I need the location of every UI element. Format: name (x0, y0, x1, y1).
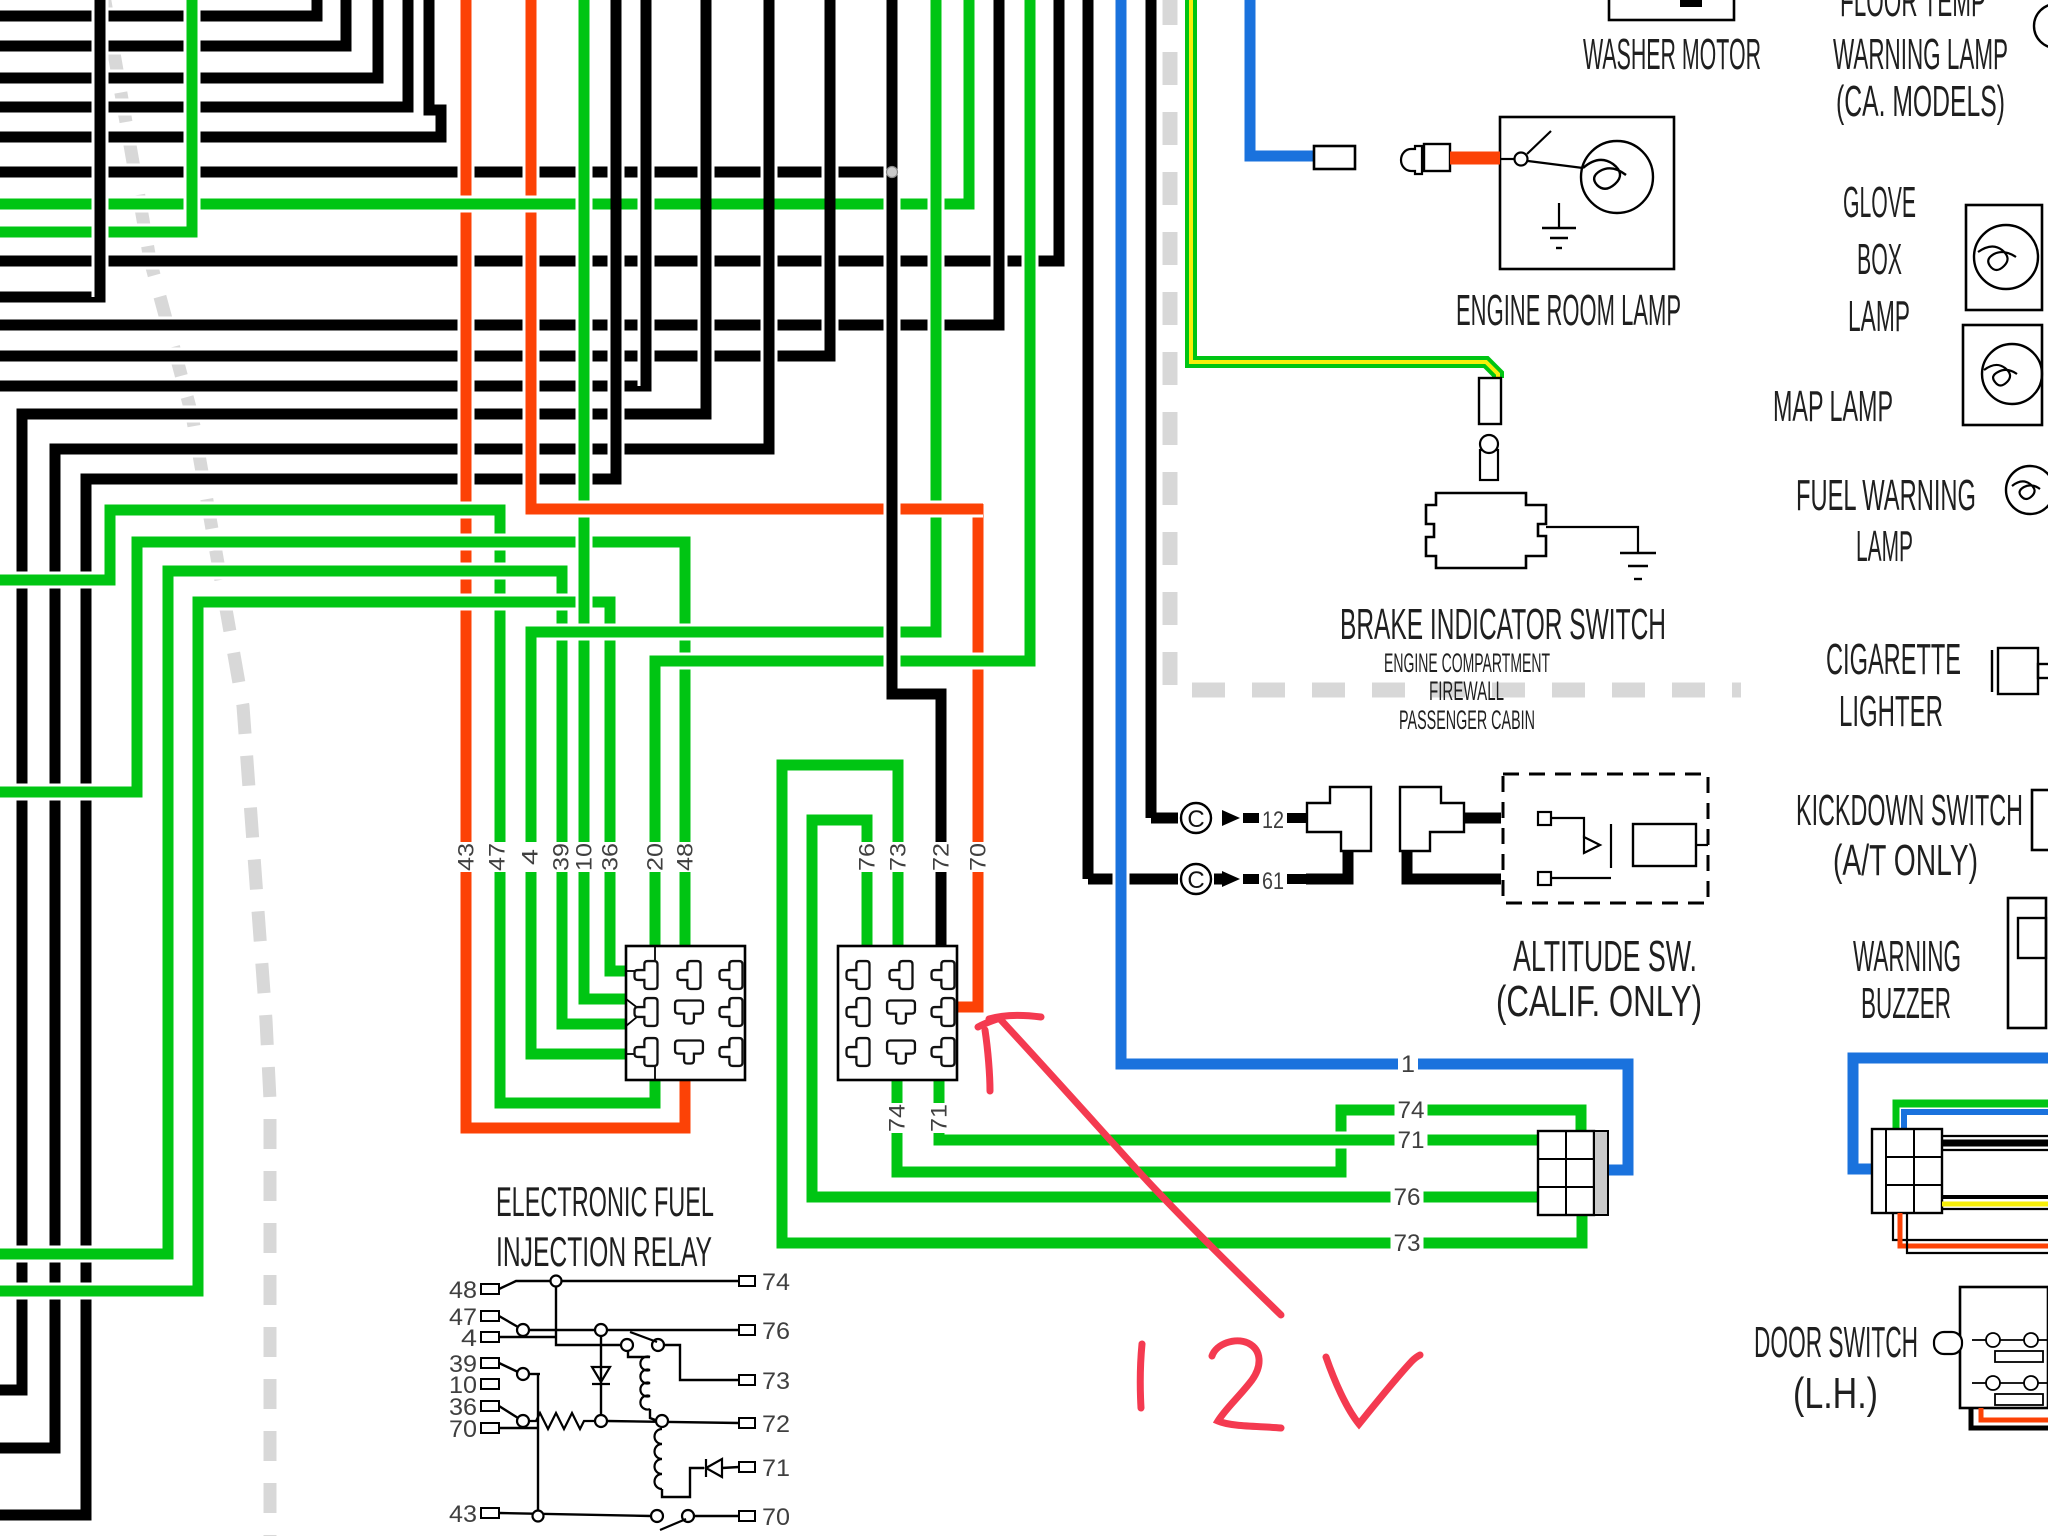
svg-text:(CALIF. ONLY): (CALIF. ONLY) (1496, 977, 1702, 1026)
svg-text:INJECTION RELAY: INJECTION RELAY (496, 1228, 712, 1275)
red annotation text 12 V (1140, 1344, 1142, 1408)
svg-text:(L.H.): (L.H.) (1793, 1369, 1878, 1418)
svg-text:70: 70 (449, 1416, 477, 1443)
svg-text:73: 73 (1394, 1230, 1421, 1257)
diode D2 (705, 1459, 707, 1477)
wire black row y172 to junction dot (0, 164, 890, 181)
map lamp box (1963, 325, 2042, 425)
svg-text:36: 36 (598, 843, 623, 871)
connector block 2 (cabin harness) (838, 946, 957, 1080)
door switch wires (1971, 1408, 2048, 1428)
wire black vertical x646 (638, 0, 655, 386)
washer motor connector (1314, 146, 1355, 169)
wire orange 70 lower vertical (957, 504, 978, 1007)
wire black row 61 left segment (1088, 874, 1178, 885)
ground (1558, 203, 1560, 228)
svg-text:74: 74 (1398, 1097, 1425, 1124)
svg-text:72: 72 (762, 1411, 790, 1438)
svg-text:(CA. MODELS): (CA. MODELS) (1836, 77, 2005, 126)
door switch contacts row 2 (1972, 1382, 1986, 1384)
wire black row y261 (0, 0, 1059, 261)
svg-text:CIGARETTE: CIGARETTE (1826, 635, 1961, 684)
wire green 39 path (0, 571, 626, 1254)
arrow row 12 (1222, 810, 1240, 826)
wire black right T-connector to altitude box (row 12) (1464, 813, 1501, 824)
wire black right T-connector to altitude box (row 61) (1407, 851, 1501, 879)
svg-text:20: 20 (643, 843, 668, 871)
svg-text:74: 74 (885, 1104, 910, 1132)
resistor R1 (499, 1406, 518, 1418)
wire black vertical x830 (825, 0, 836, 356)
arrow row 61 (1222, 871, 1240, 887)
wire black vertical x1088 to C row (1080, 0, 1097, 879)
fuel warning bulb (2006, 466, 2048, 514)
svg-text:76: 76 (762, 1318, 790, 1345)
wire black row y356 (0, 0, 830, 356)
wire green 71 path (939, 1080, 1538, 1140)
wire black row y414 / left vertical x22 (0, 0, 706, 1390)
wire green row y204 (0, 0, 969, 204)
junction dot on row y172 (887, 167, 898, 178)
wire black row y325 (0, 0, 999, 325)
svg-text:1: 1 (1401, 1051, 1415, 1078)
wire orange 43 path (466, 0, 685, 1128)
svg-text:BOX: BOX (1857, 235, 1902, 284)
T-connector right (1400, 787, 1464, 851)
svg-text:FLOOR TEMP: FLOOR TEMP (1840, 0, 1986, 26)
svg-text:70: 70 (762, 1504, 790, 1531)
relay line 70 (499, 1427, 538, 1429)
svg-text:10: 10 (572, 843, 597, 871)
wire black row y386 (0, 0, 646, 386)
wire black row 12 left segment (1151, 813, 1178, 824)
relay internal circuit (499, 1281, 739, 1289)
wire green 20 path / row y661 (655, 0, 1030, 946)
ground from switch (1546, 527, 1638, 553)
orange wire with outline from right connector bottom (1893, 1213, 2048, 1240)
wire blue right connector (1853, 1058, 2048, 1169)
floor temp bulb (edge) (2034, 4, 2048, 48)
brake indicator switch connector (1479, 378, 1501, 424)
wire green right connector pair (1898, 1105, 2048, 1129)
svg-text:70: 70 (966, 843, 991, 871)
wire black row y297 (0, 0, 100, 297)
svg-text:C: C (1187, 806, 1204, 833)
wire green 4 path / row y632 (531, 0, 936, 1054)
svg-text:C: C (1187, 867, 1204, 894)
wire black row y449 / left vertical x55 (0, 0, 769, 1448)
coil L2 (655, 1429, 663, 1444)
wire black vertical x100 (92, 0, 109, 297)
svg-text:4: 4 (461, 1325, 477, 1352)
wire green 48 path (0, 542, 685, 946)
svg-text:FUEL WARNING: FUEL WARNING (1796, 471, 1976, 520)
relay pin 72 (739, 1418, 755, 1428)
wire green row y232 (0, 0, 192, 232)
svg-text:43: 43 (449, 1501, 477, 1528)
relay pin 76 (739, 1325, 755, 1335)
wire orange 70 upper vertical (523, 0, 540, 504)
black/white wire pair from right connector (1942, 1135, 2048, 1137)
relay pin 73 (739, 1375, 755, 1385)
wire black row y78 (0, 0, 378, 78)
gray dashed harness boundary (left diagonal) (103, 0, 270, 1536)
bulb + socket + orange feed (1401, 146, 1422, 174)
svg-text:ELECTRONIC FUEL: ELECTRONIC FUEL (496, 1178, 714, 1225)
connector block 1 (EFI relay harness) (626, 946, 745, 1080)
svg-text:39: 39 (549, 843, 574, 871)
wire green 47 path (0, 510, 655, 1103)
svg-text:76: 76 (855, 843, 880, 871)
wire yellow-green map/brake feed (1191, 0, 1498, 378)
svg-text:4: 4 (518, 849, 543, 865)
gray dashed firewall boundary (vertical + horizontal) (1170, 0, 1741, 690)
cigarette lighter symbol (1991, 650, 1993, 692)
diode D1 (592, 1367, 610, 1382)
svg-text:ENGINE COMPARTMENT: ENGINE COMPARTMENT (1384, 648, 1550, 678)
coil L1 (628, 1351, 650, 1357)
relay pin 70 (739, 1511, 755, 1521)
svg-text:KICKDOWN SWITCH: KICKDOWN SWITCH (1796, 786, 2023, 835)
wire green 74 path (897, 1080, 1581, 1172)
svg-text:76: 76 (1394, 1184, 1421, 1211)
wire black vertical x616 (611, 0, 622, 479)
wire green 76 path (812, 820, 1538, 1197)
svg-text:DOOR SWITCH: DOOR SWITCH (1754, 1318, 1918, 1367)
svg-text:71: 71 (1398, 1127, 1425, 1154)
svg-text:FIREWALL: FIREWALL (1429, 676, 1504, 706)
door switch body (1960, 1287, 2048, 1408)
svg-text:74: 74 (762, 1269, 790, 1296)
svg-text:48: 48 (449, 1277, 477, 1304)
svg-text:BUZZER: BUZZER (1861, 979, 1951, 1028)
svg-text:WARNING: WARNING (1853, 932, 1961, 981)
svg-text:71: 71 (762, 1455, 790, 1482)
svg-text:47: 47 (485, 843, 510, 871)
connector (right, door harness) (1872, 1129, 1942, 1213)
T-connector left (1307, 787, 1371, 851)
wire black vertical x1059 (1054, 0, 1065, 261)
svg-text:43: 43 (454, 843, 479, 871)
wire blue thin right connector pair (1904, 1112, 2048, 1129)
door switch contacts row 1 (1972, 1339, 1986, 1341)
svg-text:WASHER MOTOR: WASHER MOTOR (1583, 30, 1761, 79)
svg-text:LAMP: LAMP (1848, 292, 1910, 341)
svg-text:LIGHTER: LIGHTER (1839, 687, 1943, 736)
svg-text:48: 48 (673, 843, 698, 871)
svg-text:61: 61 (1262, 868, 1284, 895)
svg-text:71: 71 (927, 1104, 952, 1132)
wire blue washer motor (1250, 0, 1314, 156)
wire black row y479 / left vertical x86 (0, 0, 616, 1515)
brake indicator switch sensor (1480, 450, 1498, 480)
wire black vertical x999 (994, 0, 1005, 325)
switch S1 (621, 1339, 633, 1351)
svg-text:BRAKE INDICATOR SWITCH: BRAKE INDICATOR SWITCH (1340, 600, 1666, 649)
warning buzzer box (2008, 898, 2046, 1028)
connector C symbol row 12 (1181, 803, 1211, 833)
svg-text:LAMP: LAMP (1856, 522, 1913, 571)
relay pin 71 (739, 1462, 755, 1472)
wire black vertical x706 (701, 0, 712, 414)
kickdown switch box (edge) (2032, 790, 2048, 850)
svg-text:PASSENGER CABIN: PASSENGER CABIN (1399, 705, 1535, 735)
svg-text:GLOVE: GLOVE (1843, 178, 1916, 227)
svg-text:ALTITUDE SW.: ALTITUDE SW. (1513, 932, 1697, 981)
connector C (left, door harness) (1538, 1131, 1594, 1215)
svg-text:12: 12 (1262, 807, 1284, 834)
switch (1500, 158, 1515, 160)
wire black row y107 (0, 0, 408, 107)
svg-text:(A/T ONLY): (A/T ONLY) (1833, 836, 1978, 885)
engine room lamp box (1500, 117, 1674, 269)
wire green 36 path (0, 602, 626, 1291)
Y junction symbol (626, 999, 643, 1026)
relay pin 74 (739, 1276, 755, 1286)
bulb (1581, 141, 1653, 213)
wire green 10 path (584, 0, 626, 999)
altitude switch dashed box (1503, 774, 1708, 903)
wire blue 1 path (1121, 0, 1628, 1170)
wire black vertical x769 (764, 0, 775, 449)
wire black 72 path (892, 0, 941, 946)
connector C symbol row 61 (1181, 864, 1211, 894)
svg-text:73: 73 (886, 843, 911, 871)
wire orange 70 horizontal (531, 500, 983, 509)
wire black row 61 to T-connector (1306, 851, 1348, 879)
svg-text:72: 72 (929, 843, 954, 871)
washer motor box (1609, 0, 1734, 20)
glove box lamp box (1966, 205, 2042, 310)
svg-text:WARNING LAMP: WARNING LAMP (1833, 30, 2008, 79)
wire black row y137 with jog (0, 0, 441, 137)
wire black row y46 (0, 0, 346, 46)
yellow/black wire from right connector (1942, 1195, 2048, 1199)
altitude switch internals (1538, 812, 1551, 825)
svg-text:73: 73 (762, 1368, 790, 1395)
red annotation arrow (1000, 1019, 1281, 1315)
svg-text:ENGINE ROOM LAMP: ENGINE ROOM LAMP (1456, 286, 1681, 335)
wire black vertical x1151 to C row (1143, 0, 1160, 818)
brake indicator switch body (1426, 493, 1546, 568)
svg-text:MAP LAMP: MAP LAMP (1773, 382, 1893, 431)
wire green 73 path (782, 765, 1582, 1243)
wire black row y16 to top stub (0, 0, 317, 16)
